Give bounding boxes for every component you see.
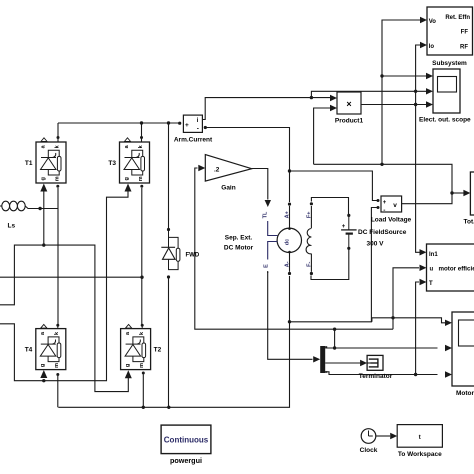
gain block triangle	[205, 155, 251, 182]
block Subsystem	[427, 7, 473, 55]
node junction T2 m on bottom bus	[142, 406, 145, 409]
svg-text:+: +	[342, 224, 346, 230]
svg-text:+: +	[383, 200, 387, 206]
node T3 m port dot	[140, 185, 143, 188]
node T1 m port dot	[56, 185, 59, 188]
svg-text:Arm.Current: Arm.Current	[174, 136, 213, 143]
node junction Vo riser	[380, 163, 383, 166]
thyristor T2	[121, 329, 151, 370]
wire v line up to Product1 input 2	[314, 108, 331, 164]
battery short plate	[346, 233, 353, 235]
node crossing dot on Product1 output	[414, 103, 417, 106]
svg-text:Load Voltage: Load Voltage	[371, 217, 412, 224]
svg-text:+: +	[185, 122, 189, 129]
arrow into Motor scope input 1	[445, 320, 452, 326]
wire Load Voltage v output loop	[314, 164, 452, 203]
battery long plate	[341, 229, 357, 231]
arrow into Motor scope input 2	[445, 345, 452, 351]
svg-text:RF: RF	[460, 45, 468, 51]
svg-text:-: -	[197, 126, 199, 133]
wire Arm.Current - to motor A+	[205, 128, 289, 203]
wire gate net A from left edge	[0, 245, 128, 392]
svg-text:×: ×	[346, 99, 351, 109]
wire T1 gate riser	[43, 191, 45, 246]
wire speed line to Gain input	[195, 168, 393, 329]
wire demux mid out to Terminator	[325, 362, 360, 364]
wire motor A- down to bottom bus	[58, 276, 289, 407]
node junction T1 gate on net A	[42, 243, 45, 246]
node junction FWD bottom on bottom bus	[167, 406, 170, 409]
wire into Product1 in1 tail	[330, 97, 332, 99]
motor field coil	[306, 229, 311, 254]
arrow into Subsystem Vo	[420, 17, 427, 23]
motor bottom nub	[288, 251, 291, 254]
wire Arm.Current i output to Product1 input 1	[202, 98, 330, 120]
svg-text:FWD: FWD	[186, 253, 200, 259]
wire demux out1 riser	[334, 329, 336, 348]
wire AC return line to right bridge leg	[0, 276, 142, 278]
svg-text:Elect. out. scope: Elect. out. scope	[419, 117, 471, 124]
motor field top lead	[310, 206, 312, 228]
wire to Elect scope input 1	[382, 75, 426, 77]
svg-text:Ls: Ls	[8, 223, 16, 230]
arrow into motor efficiency In1	[420, 249, 427, 255]
arrow into Elect scope input 2	[426, 88, 433, 94]
svg-text:motor efficiency: motor efficiency	[439, 266, 474, 273]
battery - stem	[348, 234, 350, 248]
diode FWD anode stem	[168, 231, 170, 247]
wire current branch up to scope line	[311, 91, 426, 97]
arrow into To Workspace	[390, 433, 397, 439]
arrow into Terminator	[360, 360, 367, 366]
svg-text:.2: .2	[214, 167, 220, 174]
svg-text:T3: T3	[108, 160, 116, 167]
wire Io up to Subsystem Io input	[416, 45, 421, 91]
wire top DC+ bus from T1/T3 cathodes to Arm.Current +	[58, 122, 179, 124]
node junction FWD top on bus	[167, 121, 170, 124]
svg-text:Ret. Effn: Ret. Effn	[445, 15, 470, 21]
motor TL whisker	[268, 221, 278, 236]
battery + stem	[348, 216, 350, 230]
svg-text:T2: T2	[154, 347, 162, 354]
wire u tap down to speed line	[392, 318, 394, 329]
wire Gain output to TL drop	[252, 169, 268, 200]
svg-text:g: g	[40, 177, 46, 180]
node junction current branch	[310, 96, 313, 99]
arrow into Demux	[313, 356, 320, 362]
battery - port dot	[347, 247, 350, 250]
svg-text:F+: F+	[307, 212, 313, 219]
svg-text:T4: T4	[25, 347, 33, 354]
scope Elect. out. scope	[433, 69, 460, 113]
wire Load Voltage + input	[290, 171, 378, 201]
scope Motor scope	[452, 312, 474, 386]
node junction AC return on right leg	[140, 276, 143, 279]
wire T4 top stub	[57, 326, 59, 329]
node junction demux out1 on speed line	[333, 328, 336, 331]
wire field F+ to battery +	[311, 198, 348, 215]
terminator glyph	[369, 358, 378, 360]
node T1 k port dot	[57, 136, 60, 139]
arrow up into T4 gate	[40, 370, 47, 378]
svg-text:Continuous: Continuous	[164, 436, 209, 445]
diode FWD frame top	[169, 231, 179, 248]
port dot Load Voltage +	[377, 199, 380, 202]
svg-text:m: m	[54, 176, 60, 181]
arrow into Elect scope input 3	[426, 101, 433, 107]
wire right bridge leg T3.m to T2 top	[141, 188, 143, 324]
node junction on A- wire speed tap	[288, 320, 291, 323]
svg-text:T: T	[429, 281, 433, 287]
svg-text:m: m	[54, 363, 60, 368]
thyristor T3	[120, 142, 150, 183]
svg-text:Io: Io	[429, 44, 435, 50]
motor E whisker	[268, 242, 278, 260]
block motor efficiency	[427, 244, 474, 291]
svg-text:In1: In1	[429, 252, 438, 258]
svg-text:Motor scope: Motor scope	[456, 390, 474, 397]
block To Workspace	[397, 425, 442, 448]
svg-text:Subsystem: Subsystem	[432, 60, 467, 67]
wire E below label	[267, 271, 269, 273]
wire u tap up to motor efficiency u input	[393, 268, 419, 318]
inductor Ls coil	[0, 201, 25, 211]
arrow into motor efficiency u	[420, 265, 427, 271]
wire Ls lead to left bridge leg	[25, 206, 58, 209]
svg-text:powergui: powergui	[170, 456, 202, 465]
node T3 k port dot	[140, 136, 143, 139]
arrow into Product1 input 1	[330, 95, 337, 101]
wire T2 top stub	[141, 326, 143, 329]
block Load Voltage	[381, 196, 402, 212]
svg-text:g: g	[124, 177, 130, 180]
svg-text:A-: A-	[285, 261, 291, 267]
wire Vo riser to Subsystem Vo	[382, 20, 421, 164]
scope screen	[438, 77, 457, 93]
node motor F+ port	[310, 202, 313, 205]
wire T tap up to motor efficiency T	[416, 282, 419, 375]
node T2 m port dot	[142, 372, 145, 375]
node junction demux out1 branch	[333, 346, 336, 349]
motor circle	[277, 228, 301, 252]
svg-text:m: m	[138, 176, 144, 181]
arrow into motor efficiency T	[420, 279, 427, 285]
svg-text:DC Motor: DC Motor	[224, 245, 254, 252]
wire T4 m to bottom bus	[57, 376, 59, 407]
wire motor E output to Demux input	[268, 272, 313, 359]
wire left bridge leg T1.m to T4 top	[57, 188, 59, 324]
svg-text:v: v	[393, 202, 397, 209]
svg-text:Sep. Ext.: Sep. Ext.	[225, 235, 253, 242]
motor armature bottom lead	[289, 253, 291, 272]
svg-text:A+: A+	[285, 211, 291, 218]
svg-text:g: g	[125, 364, 131, 367]
block Terminator	[367, 355, 383, 370]
svg-text:300 V: 300 V	[367, 241, 385, 248]
thyristor T4	[36, 329, 66, 370]
svg-text:F-: F-	[307, 262, 313, 267]
port dot Arm.Current + terminal	[178, 122, 181, 125]
node T4 top port dot	[56, 324, 59, 327]
diode FWD top port dot	[167, 228, 170, 231]
svg-text:Gain: Gain	[221, 185, 235, 192]
wire FWD bottom wire	[168, 279, 170, 408]
wire branch to right edge block	[452, 192, 464, 194]
svg-text:TL: TL	[262, 211, 268, 218]
arrow into Product1 input 2	[330, 105, 337, 111]
arrow up into T1 gate	[40, 184, 47, 192]
svg-text:DC FieldSource: DC FieldSource	[358, 229, 407, 236]
node motor A- port	[288, 272, 291, 275]
port dot Arm.Current - terminal	[204, 126, 207, 129]
arrow into Subsystem Io	[420, 42, 427, 48]
motor field bottom lead	[310, 254, 312, 272]
diode FWD snubber	[176, 248, 180, 261]
svg-text:-: -	[383, 207, 385, 214]
wire demux out1 to Motor scope input 2	[325, 347, 437, 349]
svg-text:u: u	[430, 267, 434, 273]
block powergui	[161, 425, 211, 454]
demux bottom notch	[325, 371, 327, 373]
wire T3 top stub	[141, 123, 143, 142]
arrow down into motor TL	[265, 200, 271, 207]
svg-text:Terminator: Terminator	[359, 373, 393, 380]
svg-text:Vo: Vo	[429, 19, 437, 25]
arrow into Elect scope input 1	[426, 73, 433, 79]
motor scope screen	[459, 320, 474, 346]
wire gate net B from left edge	[0, 191, 128, 381]
node junction to Tot scope	[450, 191, 453, 194]
svg-text:m: m	[139, 363, 145, 368]
clock hands	[368, 431, 370, 437]
diode FWD bottom port dot	[167, 275, 170, 278]
diode FWD cathode bar	[161, 246, 175, 248]
svg-text:Clock: Clock	[360, 447, 378, 454]
svg-text:To Workspace: To Workspace	[398, 451, 442, 458]
arrow into Gain input	[198, 165, 205, 171]
node motor F- port	[310, 272, 313, 275]
arrow into Motor scope input 3	[445, 371, 452, 377]
block Product1	[337, 92, 361, 114]
wire Clock to To Workspace	[376, 435, 390, 437]
block Arm.Current	[183, 115, 202, 132]
node junction Load Voltage + tap	[288, 169, 291, 172]
arrow up into T3 gate	[125, 184, 132, 192]
diode FWD frame bottom	[169, 259, 179, 269]
motor armature top lead	[289, 206, 291, 228]
node junction Io on scope line	[414, 90, 417, 93]
wire FWD top wire	[168, 123, 170, 228]
battery + port dot	[347, 214, 350, 217]
node T4 m port dot	[56, 373, 59, 376]
demux top notch	[325, 346, 327, 348]
node junction scope in1	[380, 74, 383, 77]
wire jog up to Motor scope in1 line	[371, 318, 373, 322]
wire demux bottom out to Motor scope input 3	[325, 372, 437, 375]
svg-text:Product1: Product1	[335, 118, 364, 125]
wire battery - to field F-	[311, 250, 349, 280]
wire line to Motor scope input 1	[372, 318, 446, 323]
block Clock circle	[361, 429, 376, 444]
node junction T4 gate on net B	[42, 379, 45, 382]
svg-text:dc: dc	[285, 239, 291, 245]
svg-text:E: E	[264, 264, 270, 268]
node motor A+ port	[288, 203, 291, 206]
thyristor T1	[36, 142, 66, 183]
block Tot scope right edge	[470, 172, 474, 215]
wire Load Voltage - down to armature minus line	[290, 208, 379, 322]
wire Io down to motor efficiency In1	[416, 91, 420, 252]
diode FWD triangle	[163, 248, 176, 259]
arrow into right edge block	[463, 190, 470, 196]
svg-text:Tot. scope: Tot. scope	[464, 219, 474, 226]
svg-text:T1: T1	[25, 160, 33, 167]
node junction T tap on scope3 line	[414, 373, 417, 376]
svg-text:FF: FF	[461, 30, 469, 36]
svg-text:t: t	[419, 435, 421, 441]
node dot on Ls lead	[38, 207, 41, 210]
demux bar	[320, 346, 325, 373]
arrow up into T2 gate	[125, 370, 132, 378]
node junction T3 top on bus	[140, 121, 143, 124]
wire T2 m to bottom bus	[142, 375, 144, 408]
svg-text:g: g	[40, 364, 46, 367]
motor top nub	[288, 227, 291, 230]
node T2 top port dot	[141, 324, 144, 327]
wire Product1 output to Elect scope input 3	[361, 104, 426, 106]
port dot Load Voltage -	[377, 206, 380, 209]
wire T1 top stub	[57, 123, 59, 142]
node junction u tap	[391, 316, 394, 319]
